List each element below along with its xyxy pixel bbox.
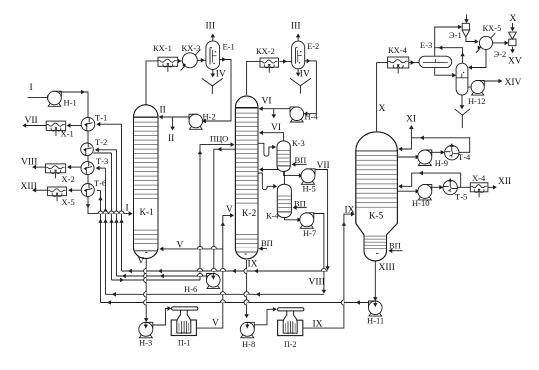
svg-text:XII: XII bbox=[498, 177, 511, 187]
wire hot stream into T-3 right side bbox=[97, 167, 106, 169]
wire ejector E-1vac discharge to KX-5 bbox=[466, 37, 478, 42]
svg-text:V: V bbox=[212, 319, 219, 329]
svg-text:V: V bbox=[138, 257, 145, 267]
water cooler KX-3 bbox=[182, 53, 197, 68]
wire steam VP into K-4 bbox=[293, 207, 307, 209]
condenser KX-5 bbox=[479, 36, 492, 49]
stripper column K-4 bbox=[277, 184, 291, 217]
vacuum drum E-3 horizontal bbox=[419, 56, 452, 67]
pump H-10 bbox=[418, 184, 432, 198]
svg-text:КХ-4: КХ-4 bbox=[388, 45, 408, 55]
svg-text:VI: VI bbox=[271, 123, 281, 133]
wire product II branch bbox=[172, 117, 174, 130]
pump H-12 bbox=[471, 80, 484, 93]
svg-text:XV: XV bbox=[508, 57, 522, 67]
funnel under vacuum drum bbox=[454, 109, 470, 115]
wire hot stream into T-6 right side bbox=[97, 190, 101, 192]
svg-text:I: I bbox=[126, 204, 129, 214]
svg-text:Е-2: Е-2 bbox=[307, 41, 319, 51]
svg-text:XIII: XIII bbox=[379, 263, 395, 273]
column K-2 bbox=[235, 96, 258, 259]
wire E-1 gas outlet III bbox=[212, 35, 214, 41]
svg-text:П-1: П-1 bbox=[178, 339, 190, 348]
wire hot jet V branch into K-1 bottom bbox=[160, 248, 223, 250]
wire X-1 outlet product VII bbox=[23, 125, 46, 127]
wire H-11 discharge bbox=[368, 302, 369, 304]
column K-1 bbox=[134, 105, 159, 259]
cooler X-1 bbox=[46, 121, 65, 130]
svg-text:КХ-3: КХ-3 bbox=[182, 43, 201, 53]
svg-text:IV: IV bbox=[216, 70, 226, 80]
wire steam into ejector E-1vac bbox=[466, 15, 468, 23]
wire pump H-10 to T-5 bbox=[430, 186, 442, 188]
wire drum equalization line bbox=[435, 48, 462, 63]
wire K-4 bottoms to pump H-7 bbox=[284, 217, 300, 219]
wire KX-2 to drum E-2 bbox=[280, 60, 292, 62]
wire steam VP into K-2 bottom bbox=[259, 248, 267, 250]
svg-text:XIV: XIV bbox=[505, 78, 522, 88]
heat exchanger T-3 bbox=[81, 162, 94, 175]
wire KX-1 to KX-3 bbox=[178, 60, 182, 62]
vacuum receiver drum bbox=[456, 63, 468, 95]
svg-text:IX: IX bbox=[345, 206, 355, 216]
pump H-11 bbox=[369, 301, 383, 315]
wire E-1 water drain IV to funnel bbox=[212, 70, 214, 77]
air condenser KX-1 bbox=[158, 57, 178, 66]
wire product VI branch bbox=[273, 109, 275, 118]
wire T-5 loop return into K-5 bbox=[399, 173, 461, 187]
svg-text:П-2: П-2 bbox=[284, 340, 296, 349]
pump H-7 bbox=[300, 213, 314, 227]
svg-text:Э-2: Э-2 bbox=[494, 49, 507, 59]
wire E-2 reflux to pump H-4 bbox=[304, 61, 316, 114]
pump H-4 bbox=[290, 107, 304, 121]
svg-text:Н-8: Н-8 bbox=[242, 339, 255, 349]
wire hot stream into T-1 right side bbox=[97, 123, 121, 125]
cooler X-4 bbox=[470, 183, 488, 192]
reflux drum E-1 bbox=[206, 41, 220, 70]
wire drum drain to funnel bbox=[461, 95, 463, 108]
heat exchanger T-5 bbox=[443, 180, 457, 194]
heat exchanger T-1 bbox=[81, 117, 95, 131]
svg-text:I: I bbox=[30, 83, 33, 93]
row: circulating reflux return from T-2 bbox=[112, 279, 201, 281]
svg-text:ВП: ВП bbox=[294, 198, 306, 208]
reflux drum E-2 bbox=[292, 41, 305, 69]
svg-text:КХ-2: КХ-2 bbox=[256, 46, 275, 56]
wire E-2 water drain IV to funnel bbox=[297, 69, 299, 76]
wire K-1 bottoms V down to pump H-3 bbox=[145, 258, 147, 321]
svg-text:Х-2: Х-2 bbox=[62, 174, 75, 184]
wire K-3 bottoms to pump H-5 bbox=[284, 171, 302, 175]
svg-text:К-4: К-4 bbox=[266, 211, 280, 221]
funnel under E-2 bbox=[290, 78, 311, 86]
wire reflux return into K-5 top bbox=[399, 138, 411, 149]
svg-text:V: V bbox=[177, 241, 184, 251]
svg-text:Н-11: Н-11 bbox=[367, 316, 384, 326]
wire PCO return riser to column K-2 bbox=[200, 145, 234, 280]
wire K-2 bottoms IX down to pump H-8 bbox=[246, 260, 248, 317]
wire steam VP into K-5 bottom bbox=[389, 250, 403, 252]
wire pump H-12 outlet XIV bbox=[484, 80, 502, 82]
wire KX-3 to drum E-1 bbox=[197, 59, 205, 61]
svg-text:X: X bbox=[510, 14, 517, 24]
wire K-3 vapour return to K-2 bbox=[260, 133, 284, 141]
wire KX-5 to ejector E-2vac bbox=[493, 42, 508, 44]
wire K-2 draw to stripper K-4 bbox=[258, 173, 276, 190]
steam ejector E-1 bbox=[462, 23, 469, 30]
wire T-3 to X-2 bbox=[68, 166, 81, 168]
column K-5 vacuum bbox=[356, 132, 398, 261]
row: circulating reflux from pump H-6 to T-2 bbox=[117, 275, 207, 277]
svg-text:ВП: ВП bbox=[261, 238, 273, 248]
svg-text:Н-10: Н-10 bbox=[412, 198, 429, 208]
cooler X-5 bbox=[48, 187, 67, 196]
svg-text:ВП: ВП bbox=[295, 155, 307, 165]
svg-text:К-1: К-1 bbox=[140, 208, 155, 218]
svg-text:К-3: К-3 bbox=[292, 138, 305, 148]
line jumps on row VII bbox=[197, 268, 202, 271]
svg-text:Н-7: Н-7 bbox=[303, 228, 316, 238]
air flow arrow at KX-3 bbox=[181, 66, 186, 71]
svg-text:Т-6: Т-6 bbox=[94, 178, 106, 188]
wire T-5 outlet to X-4 bbox=[457, 186, 470, 188]
wire E-3 vapour to ejector E-1(vac) bbox=[435, 27, 462, 56]
svg-text:Н-4: Н-4 bbox=[305, 112, 319, 122]
svg-text:КХ-5: КХ-5 bbox=[483, 23, 502, 33]
svg-text:Н-5: Н-5 bbox=[303, 184, 316, 194]
riser bundle line 2 to T-3 bbox=[105, 168, 107, 294]
wire crude feed I into pump H-1 bbox=[28, 96, 48, 98]
svg-text:Х-5: Х-5 bbox=[62, 197, 75, 207]
wire furnace P-1 outlet, hot jet V riser bbox=[196, 215, 233, 328]
pump H-3 bbox=[139, 322, 153, 336]
wire E-3 condensate drain to drum bbox=[435, 68, 456, 75]
svg-text:XIII: XIII bbox=[21, 182, 37, 192]
line jump on row to T-2 bbox=[197, 273, 202, 276]
riser bundle line 5 to T-1 bbox=[121, 124, 123, 271]
svg-text:Т-1: Т-1 bbox=[95, 113, 107, 123]
line jump on IX riser bbox=[341, 300, 344, 305]
wire H-6 discharge bbox=[207, 275, 208, 277]
wire K-5 draw to pump H-10 bbox=[397, 190, 418, 192]
wire steam VP into K-3 bbox=[292, 163, 307, 165]
svg-text:Т-4: Т-4 bbox=[458, 152, 471, 162]
wire ejector E-2vac outlet XV bbox=[512, 47, 514, 53]
furnace P-1 bbox=[171, 320, 196, 336]
wire product XI out bbox=[410, 126, 412, 138]
svg-text:Т-2: Т-2 bbox=[95, 137, 107, 147]
svg-text:Н-3: Н-3 bbox=[139, 338, 152, 348]
svg-text:Н-6: Н-6 bbox=[184, 284, 197, 294]
svg-text:Е-1: Е-1 bbox=[223, 42, 235, 52]
wire drum to pump H-12 bbox=[468, 86, 472, 88]
wire pump H-8 to furnace P-2 bbox=[254, 309, 276, 325]
cooler X-2 bbox=[46, 164, 66, 173]
pump H-2 bbox=[189, 114, 203, 128]
svg-text:К-5: К-5 bbox=[369, 212, 384, 222]
svg-text:VIII: VIII bbox=[309, 278, 325, 288]
row: hot VIII from pump H-7 to T-3 bbox=[106, 293, 324, 295]
heat exchanger T-6 bbox=[81, 184, 94, 197]
line jumps on K-1 bottoms line bbox=[144, 268, 147, 273]
wire K-2 overhead to KX-2 bbox=[247, 61, 260, 95]
svg-text:ВП: ВП bbox=[389, 241, 401, 251]
svg-text:Э-1: Э-1 bbox=[449, 30, 462, 40]
svg-text:II: II bbox=[168, 134, 174, 144]
wire X-5 outlet product XIII bbox=[33, 189, 48, 191]
svg-text:Х-4: Х-4 bbox=[472, 173, 486, 183]
riser bundle line 4 to T-2 bbox=[116, 150, 118, 276]
svg-text:Е-3: Е-3 bbox=[420, 40, 432, 50]
svg-text:IX: IX bbox=[248, 260, 258, 270]
svg-text:Н-9: Н-9 bbox=[435, 158, 448, 168]
heat exchanger T-4 bbox=[445, 146, 459, 160]
air condenser KX-4 bbox=[388, 57, 409, 68]
wire E-2 gas outlet III bbox=[297, 35, 299, 41]
svg-text:VII: VII bbox=[25, 116, 38, 126]
wire pump H-3 to furnace P-1 bbox=[153, 308, 171, 325]
svg-text:Х-1: Х-1 bbox=[61, 129, 74, 139]
svg-text:II: II bbox=[160, 106, 166, 116]
wire KX-4 to E-3 bbox=[409, 62, 419, 64]
svg-text:Н-1: Н-1 bbox=[64, 98, 77, 108]
wire PCO draw from K-2 down to pump H-6 bbox=[214, 149, 236, 272]
wire VIII from pump H-7 down to row bbox=[313, 214, 324, 293]
row: hot VII from pump H-5 to T-1 bbox=[122, 270, 328, 272]
row: hot XIII from pump H-11 to T-6 bbox=[101, 302, 369, 304]
wire K-1 overhead to KX-1 bbox=[146, 61, 158, 105]
svg-text:VI: VI bbox=[262, 97, 272, 107]
wire X-4 outlet product XII bbox=[488, 186, 496, 188]
pump H-1 bbox=[48, 91, 62, 105]
svg-text:III: III bbox=[291, 22, 301, 32]
funnel under E-1 bbox=[202, 78, 223, 86]
riser bundle line 1 to T-6 bbox=[100, 191, 102, 303]
svg-text:IX: IX bbox=[313, 320, 323, 330]
line jumps on K-2 bottoms line bbox=[244, 268, 247, 273]
wire H-1 discharge to T-1 top bbox=[60, 92, 89, 118]
line jumps on hot jet V branch bbox=[197, 246, 202, 249]
svg-text:ПЦО: ПЦО bbox=[210, 134, 228, 144]
pump H-8 bbox=[240, 322, 254, 336]
wire KX-5 condensate to drum bbox=[469, 50, 486, 68]
svg-text:VIII: VIII bbox=[21, 158, 37, 168]
air flow arrow at KX-5 bbox=[476, 48, 480, 52]
wire T-1 to X-1 bbox=[68, 125, 82, 127]
pump H-9 bbox=[418, 150, 432, 164]
wire K-5 overhead X to KX-4 bbox=[377, 63, 388, 132]
stripper column K-3 bbox=[277, 141, 290, 172]
wire hot stream into T-2 right side bbox=[96, 149, 117, 151]
wire T-2 lower outlet bbox=[93, 152, 111, 154]
wire VII from pump H-5 down to row bbox=[315, 170, 328, 270]
wire K-5 bottoms XIII to pump H-11 bbox=[374, 261, 376, 300]
wire pump H-4 reflux into K-2 top bbox=[259, 108, 290, 110]
svg-text:III: III bbox=[206, 22, 216, 32]
wire E-1 reflux to pump H-2 bbox=[203, 60, 231, 122]
wire pump H-9 to T-4 bbox=[430, 151, 443, 153]
furnace P-2 bbox=[278, 320, 303, 335]
steam ejector E-2 bbox=[509, 39, 516, 46]
wire K-2 draw to stripper K-3 bbox=[258, 143, 275, 156]
pump H-5 bbox=[301, 169, 315, 183]
svg-text:X: X bbox=[379, 104, 386, 114]
line jumps on feed line I over riser bundle bbox=[98, 211, 103, 214]
svg-text:V: V bbox=[226, 205, 233, 215]
svg-text:К-2: К-2 bbox=[242, 209, 257, 219]
wire X-2 outlet product VIII bbox=[33, 166, 46, 168]
line jumps on row VIII bbox=[220, 292, 225, 295]
wire T-2 to T-3 bbox=[87, 156, 89, 162]
wire furnace P-2 outlet, stream IX riser to K-5 bbox=[303, 214, 354, 328]
svg-text:VII: VII bbox=[317, 161, 330, 171]
wire T-1 to T-2 bbox=[87, 131, 89, 143]
air condenser KX-2 bbox=[260, 58, 279, 67]
wire T-6 to K-1 feed line I bbox=[88, 197, 132, 214]
pump H-6 bbox=[207, 274, 221, 288]
svg-text:Т-3: Т-3 bbox=[96, 156, 108, 166]
svg-text:IV: IV bbox=[300, 70, 310, 80]
wire K-5 draw to pump H-9 bbox=[397, 156, 418, 158]
svg-text:Н-2: Н-2 bbox=[203, 112, 216, 122]
wire steam X into ejector E-2vac bbox=[512, 23, 514, 31]
svg-text:КХ-1: КХ-1 bbox=[153, 43, 172, 53]
svg-text:Н-12: Н-12 bbox=[468, 96, 485, 106]
wire T-6 to X-5 bbox=[69, 189, 81, 191]
heat exchanger T-2 bbox=[81, 143, 94, 156]
wire T-3 to T-6 bbox=[87, 175, 89, 184]
riser bundle line 3 from T-2 bbox=[111, 153, 113, 280]
line jumps on row XIII bbox=[220, 300, 225, 303]
svg-text:Т-5: Т-5 bbox=[455, 192, 467, 202]
wire T-4 outlet loop bbox=[411, 138, 469, 153]
svg-text:XI: XI bbox=[406, 115, 416, 125]
wire pump H-2 reflux II into K-1 bbox=[159, 116, 189, 118]
wire K-4 vapour return to K-2 bbox=[260, 170, 285, 185]
